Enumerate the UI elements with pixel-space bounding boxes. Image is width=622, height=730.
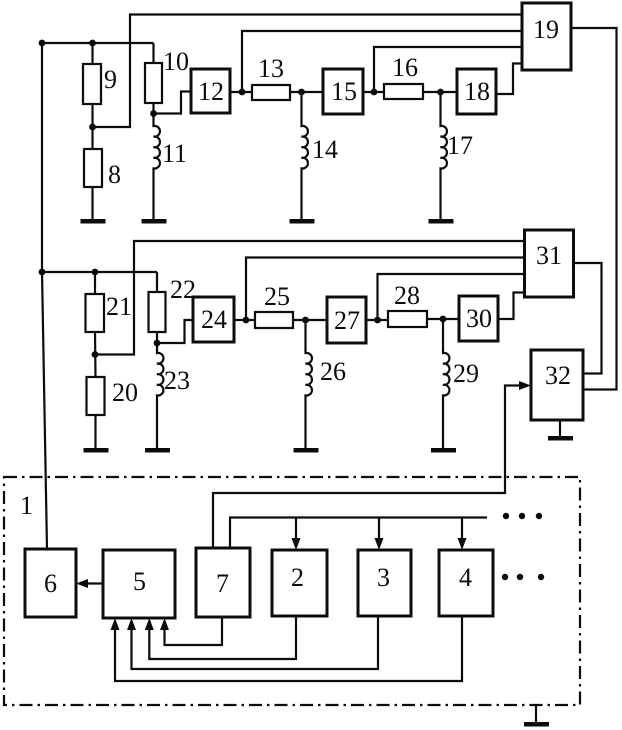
wire middle feed horizontal [42, 271, 157, 273]
wire R9-R8 junction to block 19 (first input) [93, 15, 523, 128]
wire left supply rail vertical [42, 43, 47, 549]
svg-text:21: 21 [106, 292, 132, 321]
block 24 [193, 297, 234, 342]
resistor R22 [149, 292, 166, 332]
svg-text:12: 12 [198, 77, 224, 106]
wire R22 bottom to node [156, 332, 158, 347]
wire node to block 12 input [154, 92, 192, 114]
svg-text:2: 2 [291, 563, 304, 592]
ground below L26 [294, 448, 319, 453]
resistor R8 [84, 149, 102, 187]
ground below L11 [142, 219, 167, 224]
block 32 [531, 350, 583, 420]
node after block 27 [374, 317, 381, 324]
node after R25 [302, 317, 309, 324]
inductor L17 [441, 92, 447, 219]
ground below 32 [548, 436, 573, 441]
svg-text:27: 27 [334, 306, 360, 335]
svg-text:13: 13 [258, 54, 284, 83]
ground on enclosure border [524, 722, 549, 727]
block 27 [327, 297, 366, 343]
wire node to block 19 (second input) [242, 31, 522, 92]
node middle rail junction [39, 269, 46, 276]
node R21-R20 junction [92, 351, 99, 358]
wire arrow into block 4 [461, 518, 463, 546]
node after block 15 [371, 89, 378, 96]
svg-text:25: 25 [264, 282, 290, 311]
node after R16 [437, 89, 444, 96]
wire R28 to block 30 [427, 318, 459, 320]
resistor R20 [87, 377, 105, 415]
svg-text:29: 29 [453, 359, 479, 388]
svg-text:32: 32 [545, 361, 571, 390]
wire R10 bottom to node [152, 103, 154, 118]
block 7 [196, 548, 250, 617]
block 3 [358, 550, 411, 616]
wire 18 output to block 19 [496, 64, 522, 95]
node left rail top junction [39, 40, 46, 47]
inductor L23 [157, 343, 163, 448]
block 12 [191, 69, 230, 113]
node R9-R8 junction [89, 124, 96, 131]
node after R13 [298, 89, 305, 96]
block 2 [272, 550, 327, 616]
wire 27 output [366, 319, 388, 321]
svg-text:16: 16 [392, 53, 418, 82]
inductor L26 [306, 320, 312, 448]
svg-text:23: 23 [164, 366, 190, 395]
ground below R8 [81, 219, 106, 224]
svg-text:3: 3 [377, 563, 390, 592]
resistor R16 [384, 84, 423, 99]
wire arrow into block 3 [378, 518, 380, 546]
resistor R13 [252, 85, 290, 100]
wire node to block 31 (second input) [246, 258, 525, 321]
resistor R21 [86, 294, 105, 332]
resistor R25 [255, 312, 293, 328]
wire R16 to block 18 [423, 91, 457, 93]
svg-text:14: 14 [312, 135, 338, 164]
wire R9 to R8 [91, 104, 93, 149]
wire block 7 to block 32 with arrow [213, 386, 526, 549]
resistor R9 [83, 64, 101, 104]
wire R21 to R20 [94, 332, 97, 377]
wire node to R21 [94, 272, 96, 294]
svg-text:4: 4 [459, 563, 472, 592]
wire border ground stem [535, 705, 537, 722]
node resistor 9 top junction [89, 40, 96, 47]
svg-text:10: 10 [163, 47, 189, 76]
svg-text:9: 9 [104, 65, 117, 94]
svg-text:11: 11 [162, 139, 187, 168]
wire 30 output to block 31 [498, 293, 525, 320]
svg-text:28: 28 [394, 281, 420, 310]
svg-text:5: 5 [133, 567, 146, 596]
wire 32 to ground [559, 420, 561, 436]
wire block 7 feedback to block 5 [165, 617, 223, 645]
svg-text:26: 26 [320, 357, 346, 386]
wire 24 output [234, 319, 255, 321]
wire dot2 to R9 [91, 43, 93, 64]
svg-text:19: 19 [533, 15, 559, 44]
dash-dot enclosure box 1 [4, 477, 580, 705]
ground below R20 [84, 448, 109, 453]
wire block 3 feedback to block 5 [132, 616, 379, 669]
wire block 2 feedback to block 5 [149, 616, 296, 659]
svg-text:7: 7 [216, 569, 229, 598]
wire feed to R22 [156, 272, 158, 292]
wire R13 to block 15 [290, 91, 323, 93]
ground below L29 [431, 448, 456, 453]
node below R10 [150, 110, 157, 117]
resistor R10 [145, 63, 162, 103]
block 30 [459, 296, 498, 341]
wire 19 output down right side to block 32 [571, 28, 617, 390]
wire block 4 feedback to block 5 [115, 616, 462, 681]
wire R20 to ground [94, 415, 96, 448]
wire arrow 5 to 6 [80, 582, 103, 584]
ground below L23 [145, 448, 170, 453]
wire 15 output [363, 91, 384, 93]
wire R25 to block 27 [293, 319, 327, 321]
wire R21-R20 junction to block 31 (first input) [95, 241, 525, 355]
node ellipsis lower [502, 574, 508, 580]
node after block 12 [239, 89, 246, 96]
wire R8 to ground [91, 187, 93, 219]
wire block 7 distribution bus [230, 518, 487, 549]
wire top rail horizontal [42, 42, 154, 44]
wire arrow into block 2 [295, 518, 297, 546]
wire rail to R10 [152, 43, 154, 63]
node after block 24 [243, 317, 250, 324]
node after R28 [440, 316, 447, 323]
block 6 [25, 549, 76, 617]
ground below L14 [290, 219, 315, 224]
block 18 [457, 69, 496, 114]
svg-text:31: 31 [536, 241, 562, 270]
svg-text:8: 8 [108, 160, 121, 189]
svg-text:1: 1 [20, 491, 33, 520]
svg-text:15: 15 [331, 77, 357, 106]
svg-text:6: 6 [44, 569, 57, 598]
inductor L11 [154, 114, 160, 220]
block 15 [323, 69, 363, 114]
resistor R28 [388, 311, 427, 327]
svg-text:18: 18 [464, 77, 490, 106]
wire node to block 19 (third input) [374, 47, 522, 92]
wire node to block 31 (third input) [378, 274, 525, 320]
wire node to block 24 input [157, 320, 193, 343]
block 19 [522, 3, 571, 70]
inductor L14 [302, 92, 308, 219]
svg-text:30: 30 [466, 304, 492, 333]
wire 31 output to block 32 [574, 263, 602, 374]
block 4 [439, 550, 493, 616]
block 5 [103, 550, 175, 618]
block 31 [525, 230, 574, 297]
svg-text:20: 20 [112, 378, 138, 407]
inductor L29 [443, 319, 449, 448]
node resistor 21 top junction [92, 269, 99, 276]
ground below L17 [429, 219, 454, 224]
svg-text:24: 24 [201, 305, 227, 334]
node ellipsis upper [503, 513, 509, 519]
node below R22 [154, 340, 161, 347]
svg-text:17: 17 [447, 131, 473, 160]
wire 12 output [230, 91, 252, 93]
